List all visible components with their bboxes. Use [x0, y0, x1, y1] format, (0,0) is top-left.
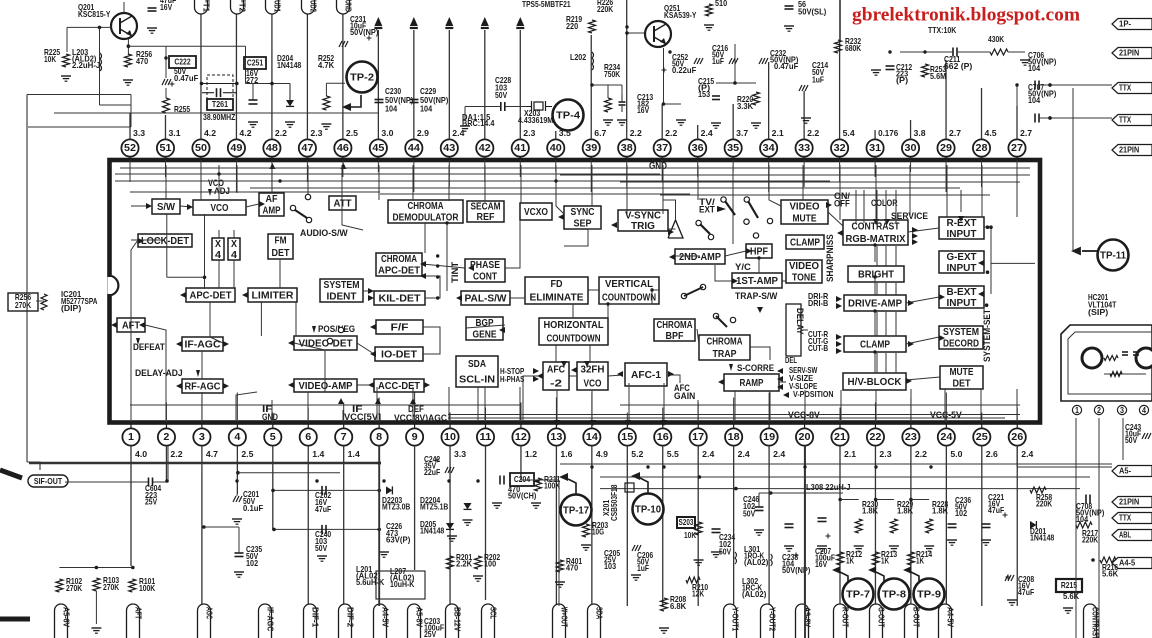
pin 23 (bottom): [910, 423, 912, 429]
wire: [663, 383, 665, 420]
junction: [873, 275, 876, 278]
svg-text:6: 6: [305, 432, 311, 443]
box around L filters: [376, 571, 425, 599]
svg-text:H-PHAS: H-PHAS: [500, 374, 525, 384]
wire: [981, 165, 983, 217]
arrow: [259, 201, 265, 207]
block V-SYNC TRIG: [618, 210, 668, 231]
resistor R202 100: [475, 556, 482, 569]
svg-text:3.0: 3.0: [381, 128, 393, 138]
wire: [874, 245, 876, 262]
svg-text:APC-DET: APC-DET: [190, 290, 232, 301]
resistor R253 5.6M: [922, 64, 929, 77]
wire pin 35 into IC: [732, 160, 734, 172]
svg-text:2.4: 2.4: [701, 128, 713, 138]
svg-text:SYSTEM-SET: SYSTEM-SET: [982, 309, 992, 362]
polarity +: [1003, 514, 1008, 516]
svg-text:A4-5: A4-5: [1119, 557, 1136, 567]
wire: [990, 227, 992, 294]
svg-text:1.8K: 1.8K: [897, 506, 913, 516]
supply arrow above pin 41: [516, 17, 524, 26]
resistor R212 1K: [837, 552, 844, 565]
svg-text:CLAMP: CLAMP: [860, 339, 890, 350]
svg-text:(DIP): (DIP): [61, 303, 81, 313]
svg-text:2.4: 2.4: [452, 128, 464, 138]
capacitor C204 symbol: [499, 476, 501, 485]
svg-text:SCL: SCL: [489, 607, 499, 619]
block SECAM REF: [467, 201, 504, 222]
wire pin 19 up into IC: [768, 393, 770, 423]
junction: [873, 309, 876, 312]
wire pin 15 up into IC: [626, 413, 628, 423]
wire pin 29 into IC: [945, 160, 947, 192]
junction: [929, 465, 932, 468]
wire: [782, 280, 786, 282]
arrow: [884, 219, 890, 225]
svg-text:VIDEO: VIDEO: [790, 201, 820, 212]
junction: [873, 350, 876, 353]
wire: [588, 289, 599, 291]
svg-text:36: 36: [692, 143, 704, 154]
svg-text:1.6: 1.6: [560, 449, 572, 459]
svg-text:12: 12: [515, 432, 527, 443]
svg-text:H/V-BLOCK: H/V-BLOCK: [848, 377, 903, 388]
connector A5-6V (bottom): [55, 604, 68, 638]
wire pin 14 up into IC: [591, 393, 593, 423]
wire: [130, 302, 132, 337]
arrow: [410, 398, 416, 404]
junction: [445, 221, 448, 224]
block LIMITER: [248, 288, 297, 302]
pin 51 (top): [164, 157, 166, 160]
svg-text:1K: 1K: [846, 556, 854, 566]
svg-text:IF-AGC: IF-AGC: [266, 607, 276, 631]
pin 28 (top): [981, 157, 983, 160]
diode D205 1N4148: [446, 523, 454, 529]
wire: [801, 329, 808, 331]
capacitor C242 35V 22uF: [445, 467, 448, 473]
wire: [357, 343, 374, 354]
svg-text:5.6K: 5.6K: [1102, 569, 1118, 579]
pin 43 (top): [448, 157, 450, 160]
pin 21 (bottom): [839, 423, 841, 429]
svg-text:430K: 430K: [988, 34, 1004, 44]
svg-text:1uF: 1uF: [712, 56, 724, 66]
arrow: [978, 260, 984, 266]
wire: [446, 223, 448, 291]
svg-text:CUT-B: CUT-B: [808, 343, 828, 353]
connector 21PIN (right): [1112, 497, 1152, 508]
switch lever: [725, 201, 735, 215]
svg-text:3.8: 3.8: [914, 128, 926, 138]
wire pin 51 up: [164, 115, 166, 139]
svg-text:272: 272: [246, 75, 258, 85]
wire pin 17 down: [697, 446, 699, 606]
capacitor C236 50V 102: [948, 523, 957, 525]
wire: [875, 390, 877, 420]
wire: [984, 226, 991, 228]
svg-text:B-EXT: B-EXT: [947, 287, 977, 298]
wire: [218, 260, 220, 288]
arrow: [611, 222, 617, 228]
wire C604 up to pin2: [167, 446, 169, 482]
svg-text:1K: 1K: [916, 556, 924, 566]
svg-text:104: 104: [1028, 63, 1040, 73]
wire C235 row: [202, 525, 206, 529]
svg-text:17: 17: [692, 432, 704, 443]
wire left edge vertical: [26, 95, 28, 463]
svg-text:IDENT: IDENT: [327, 292, 357, 303]
svg-text:PAL-S/W: PAL-S/W: [465, 293, 508, 304]
block VERTICAL COUNTDOWN: [599, 277, 659, 304]
arrow: [338, 398, 344, 404]
svg-text:3.3K: 3.3K: [737, 101, 753, 111]
supply arrow above pin 44: [410, 17, 418, 26]
svg-text:103: 103: [604, 561, 616, 571]
wire: [294, 343, 325, 392]
pin 40 (top): [555, 157, 557, 160]
wire pin 42 up: [484, 30, 486, 139]
connector 21PIN (right): [1112, 48, 1152, 59]
junction: [923, 50, 926, 53]
thick wire into SIF-OUT: [0, 470, 22, 478]
svg-text:INPUT: INPUT: [947, 263, 977, 274]
block DELAY (vertical): [786, 304, 801, 356]
wire pin 50 into IC: [200, 160, 202, 172]
svg-text:2.1: 2.1: [844, 449, 856, 459]
svg-text:AF: AF: [266, 194, 278, 205]
wire: [166, 214, 168, 277]
wire pin 45 into IC: [377, 160, 379, 172]
svg-text:21PIN: 21PIN: [1119, 496, 1139, 506]
svg-text:C222: C222: [174, 56, 191, 66]
wire: [1016, 165, 1018, 217]
svg-text:47: 47: [301, 143, 313, 154]
wire: [363, 290, 374, 292]
svg-text:2.3: 2.3: [310, 128, 322, 138]
wire C216 net: [734, 44, 736, 83]
resistor R208 6.8K: [661, 598, 668, 611]
polarity +: [794, 554, 799, 556]
svg-text:AFT: AFT: [134, 607, 144, 619]
wire: [662, 165, 664, 214]
connector AUD2 (top): [302, 0, 315, 14]
wire: [663, 200, 676, 220]
junction: [536, 479, 539, 482]
svg-text:14: 14: [586, 432, 598, 443]
block FM DET: [268, 234, 293, 259]
svg-text:50V: 50V: [1125, 435, 1137, 445]
test point TP-7: [843, 579, 874, 610]
junction: [1048, 83, 1051, 86]
wire pin 14 down: [591, 446, 593, 606]
resistor R211 100K: [535, 478, 542, 491]
connector 1P- (right): [1112, 19, 1152, 30]
wire: [1016, 389, 1018, 420]
wire pin 49 up: [235, 14, 237, 139]
svg-text:470: 470: [136, 56, 148, 66]
svg-text:2.3: 2.3: [879, 449, 891, 459]
svg-text:CLAMP: CLAMP: [790, 237, 820, 248]
wire pin 16 up into IC: [662, 408, 664, 423]
arrow: [223, 341, 229, 347]
HC201 internal parts: [1104, 356, 1118, 361]
junction: [650, 288, 653, 291]
svg-text:TTX: TTX: [1119, 114, 1131, 124]
svg-text:5.5: 5.5: [667, 449, 679, 459]
switch contact: [713, 313, 718, 318]
wire pin 36 into IC: [697, 160, 699, 177]
svg-text:(P): (P): [896, 75, 908, 85]
svg-text:SYNC: SYNC: [571, 207, 595, 218]
svg-text:1N4148: 1N4148: [420, 526, 445, 536]
wire L308: [759, 492, 843, 494]
wire pin 40 up: [555, 131, 557, 139]
svg-text:52: 52: [124, 143, 136, 154]
wire pin 5 down: [272, 446, 274, 530]
svg-text:270K: 270K: [66, 583, 82, 593]
wire pin 43 up: [448, 30, 450, 139]
arrow: [668, 229, 674, 235]
HC201 pin 2: [1094, 405, 1103, 414]
svg-text:2.2: 2.2: [915, 449, 927, 459]
wire pin 15 down: [626, 446, 628, 606]
polarity +: [170, 83, 175, 85]
svg-text:220K: 220K: [1036, 499, 1052, 509]
svg-text:38: 38: [621, 143, 633, 154]
test point TP-10: [633, 494, 664, 525]
svg-text:5.2: 5.2: [631, 449, 643, 459]
switch contact: [700, 284, 705, 289]
pin 52 (top): [129, 157, 131, 160]
svg-text:R-OUT: R-OUT: [841, 607, 851, 627]
pin 9 (bottom): [414, 423, 416, 429]
svg-text:100K: 100K: [544, 481, 560, 491]
svg-text:20: 20: [799, 432, 811, 443]
resistor R229 1.8K: [874, 498, 878, 502]
pin 10 (bottom): [449, 423, 451, 429]
arrow: [746, 248, 752, 254]
svg-text:680K: 680K: [845, 43, 861, 53]
resistor R401 470: [557, 560, 564, 572]
svg-text:10K: 10K: [684, 530, 696, 540]
svg-text:34: 34: [763, 143, 775, 154]
arrow: [537, 373, 543, 379]
junction: [278, 179, 281, 182]
test point TP-4: [553, 100, 584, 131]
svg-text:DET: DET: [272, 248, 290, 259]
arrow: [111, 322, 117, 328]
svg-text:VCO: VCO: [584, 378, 602, 389]
connector BB-12V (bottom): [446, 604, 459, 638]
arrow: [912, 233, 918, 239]
svg-text:102: 102: [955, 508, 967, 518]
svg-text:10G: 10G: [592, 527, 604, 537]
wire pin 23 up into IC: [910, 398, 912, 423]
wire pin 24 up into IC: [945, 393, 947, 423]
connector Y-OUT1 (bottom): [724, 604, 737, 638]
arrow: [288, 340, 294, 346]
wire pin 18 down: [733, 446, 735, 606]
svg-text:Y-OUT2: Y-OUT2: [768, 607, 778, 632]
wire: [448, 387, 450, 420]
svg-text:A5-8V: A5-8V: [415, 607, 425, 628]
connector W+OUT (bottom): [553, 604, 566, 638]
svg-text:GAIN: GAIN: [674, 391, 695, 401]
junction: [625, 25, 628, 28]
svg-text:5.6K: 5.6K: [1063, 591, 1079, 601]
wire pin 18 up into IC: [733, 398, 735, 423]
wire thick bus y463: [29, 462, 381, 465]
svg-text:6.7: 6.7: [594, 128, 606, 138]
wire pin 10 down: [449, 446, 451, 606]
wire: [906, 337, 939, 344]
wire pin 31 into IC: [874, 160, 876, 177]
svg-text:TPS5-5MBTF21: TPS5-5MBTF21: [522, 0, 571, 9]
arrow: [757, 307, 763, 313]
IC IC201 M52777SP body outline: [110, 160, 1041, 423]
arrow: [777, 384, 783, 390]
svg-text:KSA539-Y: KSA539-Y: [664, 10, 697, 20]
crystal X201 CSB503F18: [625, 483, 634, 492]
arrow: [873, 219, 879, 225]
svg-text:2.4: 2.4: [773, 449, 785, 459]
svg-text:2.5: 2.5: [346, 128, 358, 138]
wire: [556, 390, 558, 420]
arrow: [180, 292, 186, 298]
block X 4: [212, 238, 224, 260]
wire bottom bus y467: [560, 463, 1112, 465]
svg-text:33: 33: [798, 143, 810, 154]
connector A4-5 (right): [1112, 558, 1152, 569]
wire pin 34 into IC: [768, 160, 770, 192]
capacitor C235 50V 102: [235, 552, 244, 554]
wire pin32 up heavy: [839, 0, 841, 40]
junction: [646, 465, 649, 468]
svg-text:1ST-AMP: 1ST-AMP: [736, 276, 778, 287]
junction: [382, 479, 385, 482]
resistor R217 220K: [1076, 522, 1092, 528]
wire: [874, 352, 876, 373]
switch contact: [744, 219, 749, 224]
pin 47 (top): [306, 157, 308, 160]
connector SDA (bottom): [588, 604, 601, 638]
svg-text:49: 49: [230, 143, 242, 154]
wire: [804, 390, 806, 420]
svg-text:41: 41: [514, 143, 526, 154]
connector AGC (bottom): [198, 604, 211, 638]
svg-text:REF: REF: [477, 212, 495, 223]
svg-text:16V: 16V: [815, 559, 827, 569]
wire pin 2 up into IC: [165, 403, 167, 423]
ground symbols bottom: [379, 551, 389, 553]
wire bottom bus y490: [600, 488, 1080, 490]
svg-text:DIF-1: DIF-1: [311, 607, 321, 628]
wire: [946, 165, 948, 217]
block HPF: [746, 244, 772, 258]
svg-text:12K: 12K: [692, 589, 704, 599]
arrow: [456, 295, 462, 301]
wire pin 37 up: [661, 104, 663, 139]
wire pin 36 up: [697, 125, 699, 139]
wire: [725, 251, 746, 256]
wire: [732, 165, 734, 244]
arrow: [558, 214, 564, 220]
svg-text:50V(SL): 50V(SL): [798, 6, 827, 16]
wire pin 10 up into IC: [449, 413, 451, 423]
wire: [236, 165, 238, 193]
arrow into TP-8: [868, 566, 876, 573]
svg-text:TTX: TTX: [1119, 82, 1131, 92]
svg-text:PHASE: PHASE: [470, 260, 500, 271]
transformer T261 dashed can: [207, 75, 233, 99]
svg-text:OFF: OFF: [834, 199, 850, 209]
wire pin 42 into IC: [484, 160, 486, 182]
connector SIF-OUT: [28, 475, 68, 487]
arrow: [242, 292, 248, 298]
capacitor C229a 50V(NP) 104: [410, 99, 419, 101]
wire: [422, 276, 440, 298]
capacitor C238 104 50V(NP): [785, 523, 794, 525]
svg-text:HPF: HPF: [750, 246, 768, 257]
svg-text:(SIP): (SIP): [1088, 307, 1108, 317]
svg-text:S/W: S/W: [157, 202, 176, 213]
capacitor C201 50V 0.1uF: [233, 496, 236, 502]
connector IF-AGC (bottom): [259, 604, 272, 638]
wire pin 52 into IC: [129, 160, 131, 182]
wire pin 46 into IC: [342, 160, 344, 177]
svg-text:Y/C: Y/C: [735, 262, 751, 272]
switch lever: [295, 210, 307, 218]
resistor R216 5.6K: [1100, 557, 1116, 563]
svg-text:BRIGHT: BRIGHT: [858, 269, 894, 280]
junction dots EXT inputs: [986, 225, 990, 229]
block MUTE DET: [940, 366, 983, 389]
wire pin 38 up: [626, 0, 628, 139]
svg-text:CHROMA: CHROMA: [408, 201, 444, 212]
block R-EXT INPUT: [939, 217, 984, 239]
svg-text:AMP: AMP: [263, 206, 281, 217]
wire pin 33 into IC: [803, 160, 805, 187]
wire: [204, 214, 206, 289]
polarity +: [662, 69, 667, 71]
capacitor C221 16V 47uF: [982, 523, 991, 525]
block CHROMA BPF: [654, 319, 695, 341]
svg-text:TTX:10K: TTX:10K: [928, 25, 956, 35]
wire pin 9 down: [414, 446, 416, 570]
wire: [218, 230, 220, 238]
wire: [750, 347, 770, 360]
arrow: [590, 420, 596, 426]
resistor R201 2.2K: [447, 556, 454, 569]
HC201 pin 1: [1072, 405, 1081, 414]
polarity +: [1006, 576, 1011, 578]
arrow: [661, 420, 667, 426]
svg-text:TP-9: TP-9: [917, 589, 941, 600]
wire: [769, 391, 771, 420]
svg-text:21: 21: [834, 432, 846, 443]
svg-text:10K: 10K: [44, 54, 56, 64]
svg-text:1: 1: [128, 432, 134, 443]
svg-text:CHROMA: CHROMA: [657, 320, 693, 331]
wire pin 39 up: [590, 35, 592, 139]
svg-text:ACC-DET: ACC-DET: [378, 381, 420, 392]
arrow: [826, 202, 832, 208]
svg-text:TP-2: TP-2: [350, 72, 374, 83]
svg-text:1.4: 1.4: [348, 449, 360, 459]
wire: [908, 228, 939, 232]
wire internal bus 4: [380, 193, 690, 195]
